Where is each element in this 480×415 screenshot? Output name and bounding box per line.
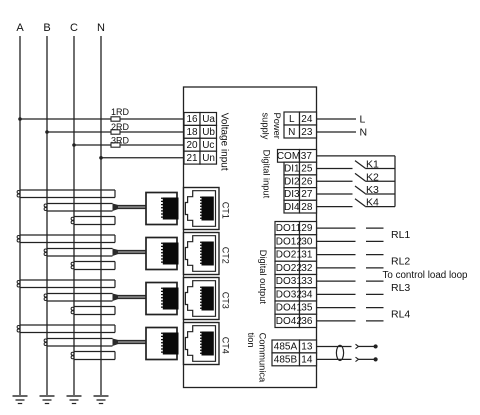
svg-text:27: 27 — [301, 189, 313, 200]
svg-text:Uc: Uc — [202, 140, 214, 151]
svg-text:DI1: DI1 — [284, 164, 300, 175]
svg-text:36: 36 — [301, 316, 313, 327]
svg-text:16: 16 — [186, 114, 198, 125]
svg-text:DO21: DO21 — [276, 250, 303, 261]
svg-text:tion: tion — [246, 333, 256, 348]
svg-text:28: 28 — [301, 202, 313, 213]
svg-text:26: 26 — [301, 176, 313, 187]
svg-text:24: 24 — [301, 114, 313, 125]
svg-text:Digital output: Digital output — [258, 250, 268, 305]
svg-text:31: 31 — [301, 250, 313, 261]
svg-text:DO32: DO32 — [276, 289, 303, 300]
svg-text:CT1: CT1 — [221, 202, 231, 219]
svg-text:N: N — [288, 127, 295, 138]
svg-text:25: 25 — [301, 164, 313, 175]
svg-text:Ua: Ua — [202, 114, 215, 125]
svg-text:485A: 485A — [274, 342, 298, 353]
svg-text:DI4: DI4 — [284, 202, 300, 213]
svg-text:C: C — [70, 22, 78, 34]
svg-text:1RD: 1RD — [111, 107, 130, 117]
svg-text:37: 37 — [301, 151, 313, 162]
svg-text:CT4: CT4 — [221, 337, 231, 354]
svg-text:To control load loop: To control load loop — [383, 270, 469, 281]
svg-text:20: 20 — [186, 140, 198, 151]
svg-text:Digital input: Digital input — [262, 150, 272, 199]
svg-text:14: 14 — [301, 354, 313, 365]
svg-text:21: 21 — [186, 153, 198, 164]
svg-text:Voltage input: Voltage input — [218, 113, 229, 171]
svg-text:3RD: 3RD — [111, 135, 130, 145]
svg-text:33: 33 — [301, 276, 313, 287]
svg-text:13: 13 — [301, 342, 313, 353]
svg-text:Power: Power — [272, 113, 282, 139]
svg-text:34: 34 — [301, 289, 313, 300]
svg-text:18: 18 — [186, 127, 198, 138]
svg-text:CT2: CT2 — [221, 247, 231, 264]
svg-text:DI3: DI3 — [284, 189, 300, 200]
svg-text:DO11: DO11 — [276, 223, 302, 234]
svg-text:DO42: DO42 — [276, 316, 303, 327]
svg-text:Communica: Communica — [258, 333, 268, 383]
svg-text:29: 29 — [301, 223, 313, 234]
svg-text:DO31: DO31 — [276, 276, 303, 287]
svg-text:30: 30 — [301, 236, 313, 247]
svg-text:35: 35 — [301, 303, 313, 314]
svg-text:L: L — [360, 114, 366, 126]
svg-text:RL4: RL4 — [391, 309, 410, 321]
svg-text:DO41: DO41 — [276, 303, 303, 314]
svg-text:N: N — [360, 127, 368, 139]
svg-text:B: B — [43, 22, 50, 34]
svg-text:supply: supply — [261, 113, 271, 140]
svg-text:32: 32 — [301, 263, 313, 274]
svg-text:CT3: CT3 — [221, 292, 231, 309]
svg-text:23: 23 — [301, 127, 313, 138]
svg-text:K4: K4 — [366, 197, 379, 209]
svg-text:DO22: DO22 — [276, 263, 303, 274]
svg-text:RL2: RL2 — [391, 256, 410, 268]
svg-text:K1: K1 — [366, 159, 379, 171]
svg-text:485B: 485B — [274, 354, 298, 365]
svg-text:L: L — [289, 114, 295, 125]
svg-text:N: N — [97, 22, 105, 34]
svg-text:DI2: DI2 — [284, 176, 300, 187]
svg-text:K2: K2 — [366, 171, 379, 183]
svg-text:A: A — [16, 22, 24, 34]
svg-text:Un: Un — [202, 153, 215, 164]
svg-text:COM: COM — [277, 151, 300, 162]
svg-text:RL3: RL3 — [391, 282, 410, 294]
svg-text:K3: K3 — [366, 184, 379, 196]
svg-text:Ub: Ub — [202, 127, 215, 138]
svg-text:DO12: DO12 — [276, 236, 303, 247]
svg-text:RL1: RL1 — [391, 229, 410, 241]
svg-text:2RD: 2RD — [111, 122, 130, 132]
